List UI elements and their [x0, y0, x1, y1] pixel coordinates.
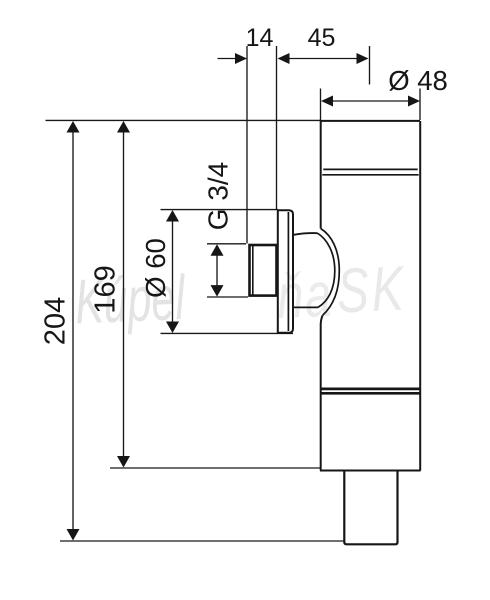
- svg-text:169: 169: [90, 265, 122, 313]
- svg-text:Ø 48: Ø 48: [388, 65, 448, 96]
- svg-text:14: 14: [246, 24, 274, 52]
- svg-text:204: 204: [40, 297, 72, 345]
- svg-text:45: 45: [308, 24, 336, 52]
- svg-text:G 3/4: G 3/4: [203, 162, 234, 230]
- svg-text:Ø 60: Ø 60: [140, 238, 171, 298]
- svg-text:SK: SK: [336, 253, 408, 326]
- svg-text:ňa: ňa: [276, 259, 334, 331]
